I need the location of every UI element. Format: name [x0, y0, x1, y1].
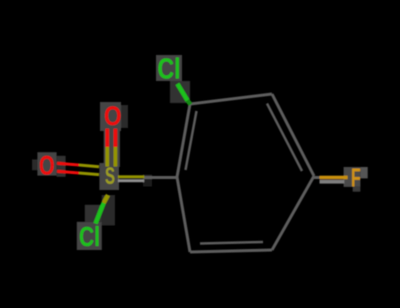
box at ring carbon C1 — [143, 175, 152, 187]
bond C1-S gray half — [144, 176, 178, 179]
bond S=O horizontal lower line red part — [57, 171, 79, 173]
ring bond C3-C4 outer (double) — [272, 94, 314, 176]
box behind top Cl label — [156, 55, 182, 81]
bond S=O horizontal lower line olive part — [79, 173, 99, 175]
bond C2-Cl dark green part — [188, 101, 191, 105]
ring bond C6-C1 — [177, 177, 190, 252]
bond C4-F gold part — [320, 176, 348, 180]
box below F — [353, 186, 361, 191]
bond S=O vertical line 2 olive part — [114, 147, 118, 167]
bond S=O vertical line 1 olive part — [105, 147, 109, 167]
box behind bottom Cl label — [77, 222, 102, 250]
bond S=O horizontal upper line olive part — [79, 165, 99, 167]
bond S=O vertical line 2 red part — [114, 129, 118, 147]
svg-text:O: O — [39, 150, 55, 180]
svg-text:F: F — [351, 162, 361, 192]
box right of left O — [57, 156, 66, 177]
svg-text:S: S — [105, 163, 115, 190]
ring bond C1-C2 outer (double) — [177, 104, 190, 177]
bond S-Cl olive part — [104, 195, 108, 203]
bond C4-F gray stub — [314, 176, 332, 179]
box right of top O — [121, 105, 128, 128]
bond S=O vertical line 1 red part — [105, 129, 109, 147]
ring bond C1-C2 inner line — [186, 111, 197, 170]
bond C2-Cl green part — [177, 84, 187, 101]
svg-text:Cl: Cl — [79, 221, 100, 252]
box behind top O label — [100, 102, 121, 131]
svg-text:O: O — [104, 101, 122, 131]
box right of F — [360, 167, 367, 178]
ring bond C5-C6 outer (double) — [190, 250, 272, 252]
bond C1-S olive half — [118, 175, 144, 178]
ring bond C3-C4 inner line — [267, 104, 302, 172]
box behind S=O vertical bond — [104, 125, 120, 167]
box behind S label — [99, 163, 119, 190]
ring bond C2-C3 — [190, 94, 272, 104]
bond S-Cl green part — [96, 203, 104, 224]
ring bond C5-C6 inner line — [200, 242, 263, 244]
bond S=O horizontal upper line red part — [57, 163, 79, 165]
box left of left O — [32, 159, 37, 170]
box behind F label — [344, 167, 361, 187]
ring bond C4-C5 — [272, 176, 314, 250]
box behind left O label — [37, 152, 56, 175]
box right of S-Cl bond — [102, 195, 115, 225]
box behind S-Cl bond — [85, 205, 109, 222]
bond C4-F shadow — [320, 180, 345, 184]
box behind top Cl bond — [170, 81, 190, 103]
bond C1-S shadow — [118, 179, 144, 182]
svg-text:Cl: Cl — [158, 54, 181, 86]
